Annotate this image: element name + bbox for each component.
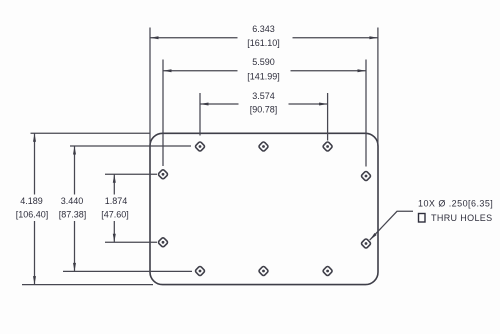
extension line dim 1.874 bottom [105,241,157,243]
extension line dim 5.590 left [162,60,164,167]
arrow 3.440 bottom [73,263,76,272]
leader arrow [369,233,377,241]
svg-text:10X Ø .250[6.35]: 10X Ø .250[6.35] [418,198,493,208]
arrow 1.874 top [113,174,116,183]
svg-text:THRU HOLES: THRU HOLES [431,213,493,223]
svg-text:[141.99]: [141.99] [247,71,280,81]
svg-text:5.590: 5.590 [252,57,275,67]
extension line dim 3.440 bottom [63,270,192,272]
extension line dim 1.874 top [105,173,157,175]
extension line dim 3.574 left [199,93,201,136]
hole H8 (bottom row left) [195,266,205,276]
svg-text:3.440: 3.440 [61,196,84,206]
hole H1 (top row left) [195,141,205,151]
plate outline [150,133,378,284]
arrow 4.189 bottom [33,276,36,285]
dim line 5.590 left segment [163,70,238,72]
svg-text:[47.60]: [47.60] [101,209,129,219]
dim line 3.440 upper segment [74,146,76,195]
hole H4 (left column upper) [158,169,168,179]
svg-text:4.189: 4.189 [20,196,43,206]
dim line 5.590 right segment [291,70,367,72]
extension line dim 4.189 bottom [22,284,153,286]
extension line dim 3.574 right [327,93,329,141]
dim line 6.343 right segment [293,37,378,39]
svg-text:[90.78]: [90.78] [250,104,278,114]
arrow 5.590 right [358,69,367,72]
dim line 3.574 right segment [289,103,328,105]
dim line 3.574 left segment [200,103,239,105]
svg-text:[161.10]: [161.10] [247,38,280,48]
dim line 4.189 lower segment [34,221,36,285]
arrow 1.874 bottom [113,234,116,243]
svg-text:6.343: 6.343 [252,24,275,34]
dim line 1.874 lower segment [113,221,115,242]
leader line to note [370,211,413,240]
arrow 6.343 right [369,36,378,39]
extension line dim 5.590 right [365,60,367,167]
svg-text:3.574: 3.574 [252,91,275,101]
extension line dim 4.189 top [31,132,151,134]
dim line 3.440 lower segment [74,221,76,271]
extension line dim 6.343 right [377,28,379,147]
hole H5 (left column lower) [158,237,168,247]
arrow 4.189 top [33,133,36,142]
extension line dim 6.343 left [149,28,151,147]
arrow 3.574 left [200,103,209,106]
arrow 5.590 left [163,69,172,72]
hole H6 (right column upper) [361,171,371,181]
dim line 1.874 upper segment [113,174,115,194]
arrow 3.440 top [73,146,76,155]
hole H10 (bottom row right) [322,266,332,276]
hole H3 (top row right) [322,141,332,151]
svg-text:[106.40]: [106.40] [16,209,49,219]
hole H2 (top row middle) [258,141,268,151]
svg-text:1.874: 1.874 [105,196,128,206]
note symbol (box glyph) [419,214,426,223]
hole H9 (bottom row middle) [258,266,268,276]
arrow 3.574 right [319,103,328,106]
dim line 6.343 left segment [150,37,238,39]
svg-text:[87.38]: [87.38] [59,209,87,219]
dim line 4.189 upper segment [34,133,36,194]
extension line dim 3.440 top [70,145,191,147]
hole H7 (right column lower, leader target) [361,238,371,248]
arrow 6.343 left [150,36,159,39]
